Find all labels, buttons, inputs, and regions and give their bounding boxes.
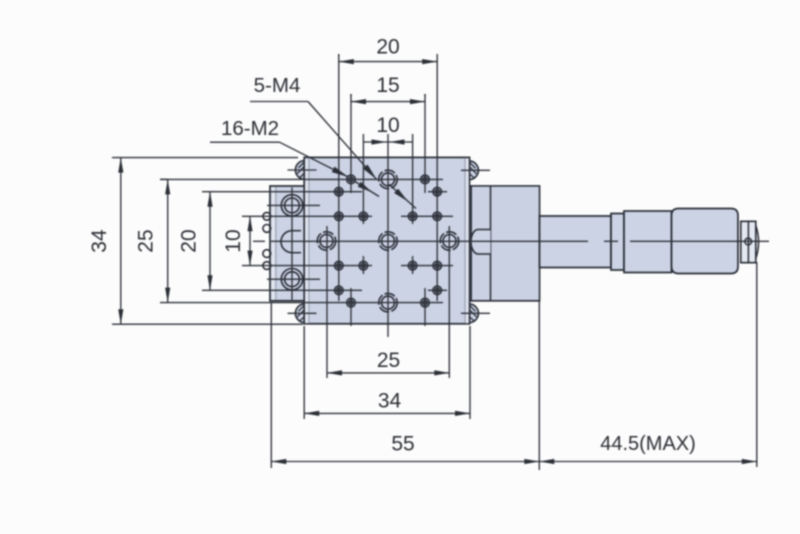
- M2 tapped hole 5: [335, 212, 344, 221]
- dim 44.5 line: [539, 459, 757, 464]
- M2 tapped hole 9: [335, 261, 344, 270]
- dim 20 extension left: [338, 54, 340, 57]
- micrometer bracket clamp split line: [490, 187, 492, 301]
- hole row centerline y192: [202, 191, 447, 193]
- micrometer bracket shading: [472, 187, 539, 300]
- label 16-M2 leader: [210, 142, 379, 196]
- dim 34 left text: [88, 229, 111, 253]
- M2 tapped hole 4: [433, 187, 442, 196]
- dim 20 text: [376, 36, 399, 59]
- M2 tapped hole 16: [421, 298, 430, 307]
- M2 tapped hole 2: [421, 175, 430, 184]
- dim 10 top text: [376, 114, 399, 137]
- micrometer step collar: [611, 214, 624, 271]
- svg-text:20: 20: [178, 229, 201, 252]
- dim 25 left text: [135, 229, 158, 252]
- label 5-M4 text: [254, 74, 301, 97]
- side set screw 4: [263, 262, 271, 270]
- main vertical centerline: [387, 134, 389, 337]
- ear centerline top-right: [461, 169, 490, 171]
- hole column centerline x437: [436, 54, 438, 301]
- dim 10 left line: [247, 216, 252, 265]
- svg-text:10: 10: [376, 114, 399, 137]
- hole column centerline x351: [350, 94, 352, 326]
- micrometer thimble: [672, 209, 739, 274]
- M2 tapped hole 12: [433, 261, 442, 270]
- corner screw ear bottom-right: [467, 304, 478, 323]
- dim 25 left ext top: [160, 178, 168, 180]
- M2 tapped hole 11: [408, 261, 417, 270]
- M2 tapped hole 13: [335, 286, 344, 295]
- svg-text:5-M4: 5-M4: [254, 74, 301, 97]
- dim 20 left line: [207, 192, 212, 291]
- socket head screw upper: [281, 195, 302, 216]
- svg-text:20: 20: [376, 36, 399, 59]
- M4 tapped hole bottom: [379, 293, 397, 311]
- svg-text:25: 25: [135, 229, 158, 252]
- top plate left edge light strip: [305, 158, 309, 323]
- hole row centerline y216: [242, 215, 453, 217]
- socket screw centerline upper: [267, 204, 320, 206]
- hole row centerline y266: [242, 265, 453, 267]
- dim 15 text: [376, 74, 399, 97]
- hole row centerline y290: [202, 289, 447, 291]
- svg-text:16-M2: 16-M2: [221, 117, 279, 140]
- dim 55 ext left: [270, 302, 272, 468]
- hole row centerline y303: [160, 302, 443, 304]
- side set screw 1: [263, 212, 271, 220]
- dim 34 left ext bottom: [112, 323, 303, 325]
- dim 55 line: [271, 459, 539, 464]
- dim 20 line: [339, 59, 437, 64]
- M2 tapped hole 8: [433, 212, 442, 221]
- dim 34 bottom text: [378, 390, 402, 413]
- dim 55 text: [391, 433, 414, 456]
- svg-text:15: 15: [376, 74, 399, 97]
- screw column centerline x292: [291, 188, 293, 300]
- dim 10 top line: [363, 139, 412, 144]
- ratchet cap end bulge: [756, 226, 759, 259]
- dim 34 left line: [118, 158, 123, 325]
- M2 tapped hole 3: [335, 187, 344, 196]
- hole column centerline x339: [338, 54, 340, 301]
- M4 tapped hole right: [440, 232, 458, 250]
- base plate inner edge highlight: [275, 187, 277, 300]
- base plate edge light strip: [271, 187, 275, 300]
- hole column centerline x413: [412, 134, 414, 274]
- corner screw ear top-right: [467, 161, 478, 180]
- M4 tapped hole top: [379, 170, 397, 188]
- svg-text:44.5(MAX): 44.5(MAX): [600, 433, 696, 455]
- socket screw centerline lower: [267, 278, 320, 280]
- corner screw ear top-left: [295, 161, 306, 180]
- dim 10 left text: [222, 229, 245, 252]
- dim 15 extension lines: [351, 94, 425, 96]
- ear centerline top-left: [288, 169, 317, 171]
- top plate right edge light strip: [466, 158, 469, 323]
- main horizontal centerline: [253, 240, 769, 242]
- semicircular notch: [281, 231, 301, 253]
- top plate (34x34 stage platform): [304, 157, 469, 323]
- micrometer ratchet cap body: [741, 221, 756, 262]
- micrometer shaft: [540, 216, 612, 268]
- dim 55 ext right shared: [538, 301, 540, 470]
- dim 25 left line: [165, 179, 170, 302]
- svg-text:34: 34: [88, 229, 111, 253]
- top plate right inner edge: [464, 158, 466, 322]
- M2 tapped hole 15: [347, 298, 356, 307]
- micrometer spindle tip dome: [471, 230, 491, 255]
- M2 tapped hole 14: [433, 286, 442, 295]
- corner screw ear bottom-left: [295, 304, 306, 323]
- M2 tapped hole 6: [359, 212, 368, 221]
- M2 tapped hole 7: [408, 212, 417, 221]
- dim 34 left ext top: [112, 157, 298, 159]
- label 16-M2 text: [221, 117, 279, 140]
- svg-text:34: 34: [378, 390, 402, 413]
- M2 tapped hole 10: [359, 261, 368, 270]
- dim 34 bottom line: [304, 411, 470, 416]
- dim 25 bottom ext lines: [327, 226, 449, 378]
- dim 25 bottom text: [377, 349, 400, 372]
- svg-text:25: 25: [377, 349, 400, 372]
- top plate left inner edge: [308, 158, 310, 322]
- micrometer sleeve barrel: [624, 211, 672, 273]
- ear centerline bottom-right: [461, 312, 490, 314]
- hole column centerline x363: [362, 134, 364, 274]
- hole column centerline x425: [424, 94, 426, 326]
- dim 44.5 ext right: [756, 262, 758, 467]
- ratchet cap center screw: [745, 238, 752, 245]
- M4 tapped hole center: [379, 232, 397, 250]
- svg-text:10: 10: [222, 229, 245, 252]
- dim 34 bottom ext lines: [304, 326, 470, 419]
- dim 15 line: [351, 99, 425, 104]
- side set screw 3: [263, 250, 271, 258]
- side set screw 2: [263, 225, 271, 233]
- ear centerline bottom-left: [288, 312, 317, 314]
- dim 20 left text: [178, 229, 201, 252]
- ratchet cap split line: [747, 222, 749, 262]
- M4 tapped hole left: [317, 232, 335, 250]
- dim 44.5 text: [600, 433, 696, 455]
- svg-text:55: 55: [391, 433, 414, 456]
- M2 tapped hole 1: [347, 175, 356, 184]
- dim 25 bottom line: [327, 370, 449, 375]
- hole row centerline y179: [160, 178, 443, 180]
- socket head screw lower: [281, 269, 302, 290]
- micrometer bracket left edge: [470, 187, 472, 301]
- base plate (moving carriage, behind top plate): [270, 186, 540, 301]
- label 5-M4 leader: [250, 102, 416, 209]
